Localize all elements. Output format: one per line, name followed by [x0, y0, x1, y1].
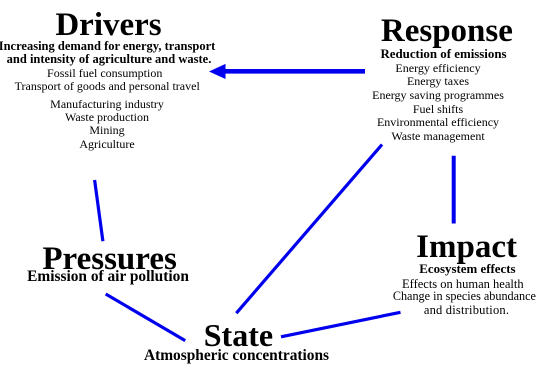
line Drivers to Pressures — [95, 180, 103, 241]
Response item: Environmental efficiency — [377, 116, 499, 128]
Response item: Energy saving programmes — [372, 89, 504, 101]
Drivers item: Manufacturing industry — [50, 98, 164, 110]
Drivers item: Agriculture — [79, 138, 134, 150]
Drivers item: Mining — [89, 124, 124, 136]
Drivers subtitle bold line 1 — [0, 40, 215, 53]
heading Impact — [416, 231, 517, 264]
Impact item: and distribution. — [424, 304, 509, 317]
arrow Response to Drivers: head — [209, 64, 226, 79]
heading Response — [381, 15, 513, 48]
Impact item: Change in species abundance — [393, 290, 536, 302]
heading State — [204, 319, 273, 351]
line Impact to Response — [452, 156, 456, 224]
Drivers item: Fossil fuel consumption — [47, 67, 162, 79]
Response subtitle bold: Reduction of emissions — [380, 48, 506, 61]
Response item: Energy taxes — [407, 75, 469, 87]
Drivers subtitle bold line 2 — [7, 53, 212, 66]
line State to Response — [236, 145, 382, 314]
Response item: Waste management — [391, 130, 484, 142]
line State to Impact — [281, 312, 401, 337]
Pressures subtitle bold: Emission of air pollution — [27, 269, 189, 284]
Drivers item: Waste production — [65, 111, 149, 123]
Response item: Fuel shifts — [413, 103, 463, 115]
Impact item: Effects on human health — [402, 278, 524, 291]
Impact subtitle bold: Ecosystem effects — [419, 263, 515, 276]
arrow Response to Drivers: shaft — [225, 69, 365, 74]
line Pressures to State — [106, 294, 186, 341]
State subtitle bold: Atmospheric concentrations — [144, 348, 329, 363]
Drivers item: Transport of goods and personal travel — [15, 80, 200, 92]
heading Drivers — [55, 9, 161, 42]
Response item: Energy efficiency — [395, 62, 480, 74]
heading Pressures — [42, 243, 176, 276]
